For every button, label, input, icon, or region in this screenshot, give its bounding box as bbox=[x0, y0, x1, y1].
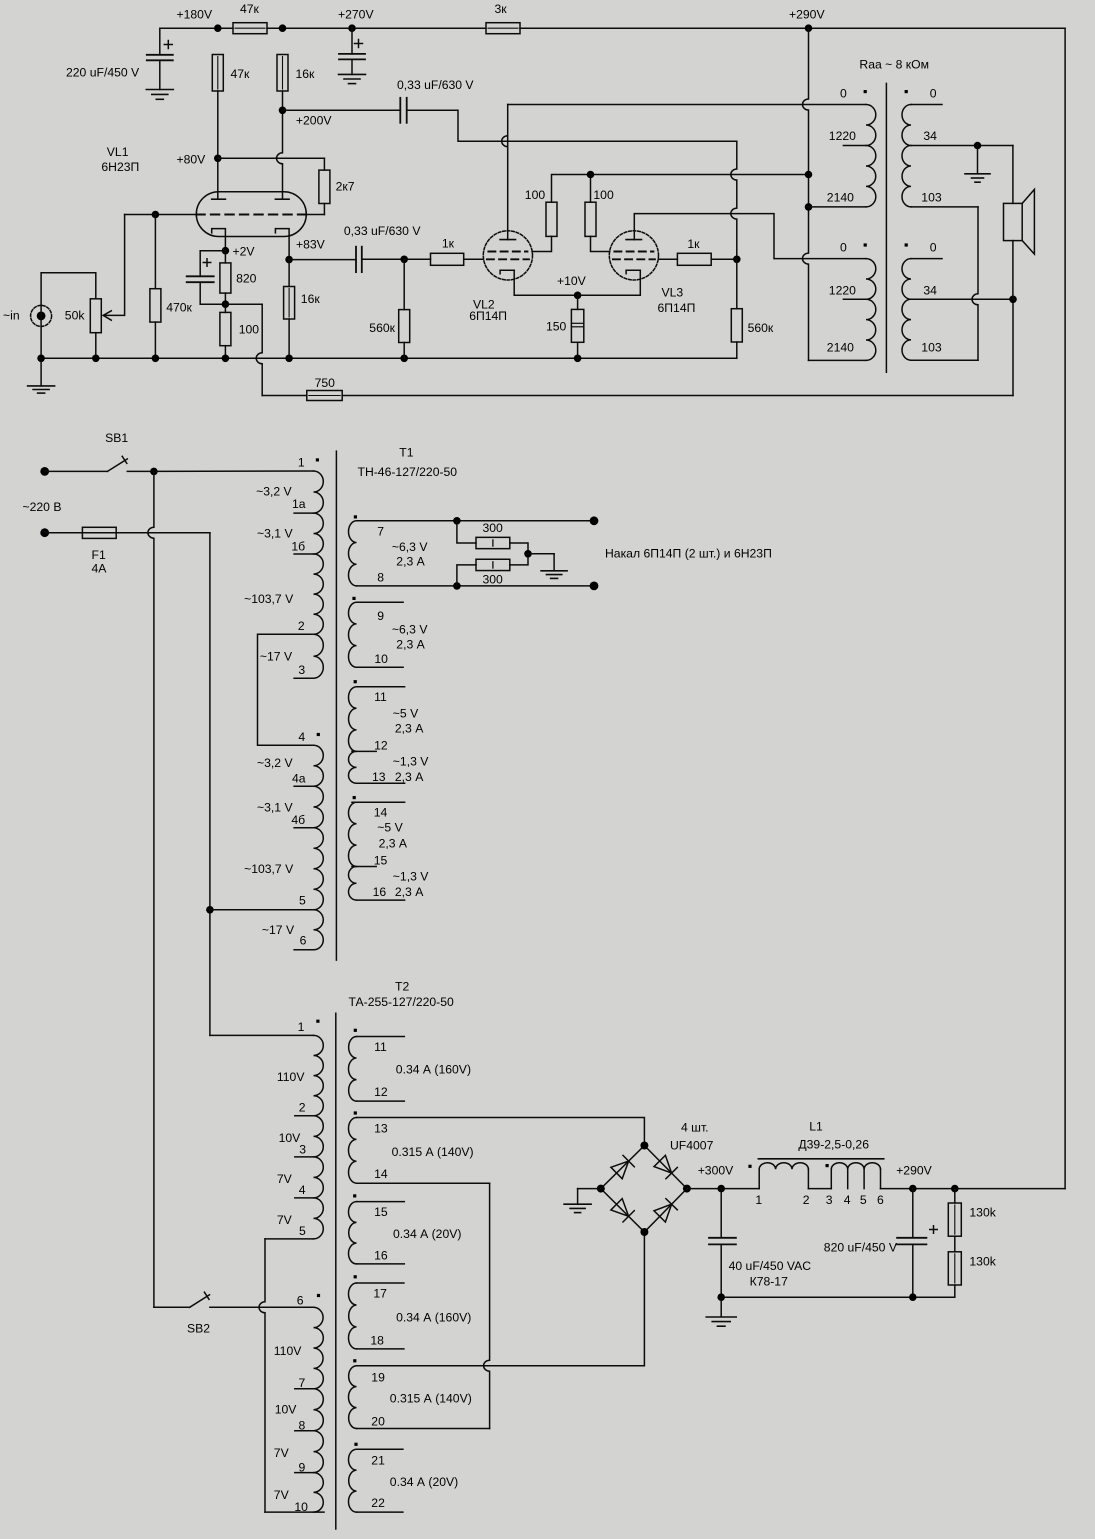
T2 pin 22 bbox=[357, 1496, 403, 1512]
svg-text:2: 2 bbox=[299, 1101, 306, 1115]
T1 pin2-pin4 jumper bbox=[258, 634, 314, 745]
label Nakal bbox=[605, 547, 772, 561]
svg-text:7V: 7V bbox=[274, 1446, 290, 1460]
T2 core bbox=[335, 1013, 337, 1529]
svg-text:5: 5 bbox=[299, 894, 306, 908]
T1 pin 6 bbox=[294, 934, 313, 950]
svg-text:34: 34 bbox=[923, 284, 937, 298]
svg-text:300: 300 bbox=[483, 573, 504, 587]
T1 pin 13 bbox=[357, 770, 405, 784]
T1 pin 10 bbox=[357, 652, 404, 667]
capacitor 40uF/450VAC bbox=[709, 1189, 811, 1298]
label T1 bbox=[358, 446, 458, 480]
T2 label 0.315A 140V upper bbox=[392, 1145, 474, 1159]
label ~220V bbox=[23, 500, 62, 514]
OPT secondary-2 label 0 bbox=[905, 241, 942, 259]
svg-text:4: 4 bbox=[844, 1193, 851, 1207]
T2 label 7V lower-2 bbox=[274, 1488, 290, 1502]
svg-text:0.315 А (140V): 0.315 А (140V) bbox=[390, 1392, 472, 1406]
T2 pin 5 jumper to pin 10 bbox=[259, 1224, 324, 1512]
T1 label ~5V (11-12) bbox=[393, 707, 424, 736]
svg-text:0.315 А (140V): 0.315 А (140V) bbox=[392, 1145, 474, 1159]
svg-text:1а: 1а bbox=[292, 497, 306, 511]
T2 pin 11 bbox=[357, 1037, 405, 1055]
OPT primary-2 winding bbox=[866, 259, 876, 361]
label T2 bbox=[349, 980, 455, 1010]
VL1 left cathode bbox=[212, 229, 226, 251]
svg-text:~17 V: ~17 V bbox=[262, 923, 295, 937]
inductor L1 choke bbox=[748, 1120, 883, 1189]
T1 winding 14-16 bbox=[349, 796, 357, 900]
svg-text:15: 15 bbox=[374, 853, 388, 867]
svg-text:0.34 А (20V): 0.34 А (20V) bbox=[390, 1475, 458, 1489]
svg-text:110V: 110V bbox=[277, 1070, 305, 1084]
svg-text:7: 7 bbox=[299, 1376, 306, 1390]
wire +80V to 2k7 bbox=[218, 157, 325, 159]
svg-text:К78-17: К78-17 bbox=[750, 1275, 788, 1289]
T1 pin 1a bbox=[292, 497, 314, 513]
svg-text:+300V: +300V bbox=[698, 1164, 734, 1178]
T1 pin 11 bbox=[357, 687, 405, 704]
svg-text:6: 6 bbox=[297, 1294, 304, 1308]
potentiometer 50k bbox=[65, 299, 102, 359]
svg-text:10: 10 bbox=[294, 1500, 308, 1514]
svg-text:2140: 2140 bbox=[827, 191, 854, 205]
svg-text:Т2: Т2 bbox=[395, 980, 409, 994]
T2 pin 9 bbox=[295, 1461, 314, 1475]
T1 label ~103,7V lower bbox=[244, 862, 294, 876]
svg-text:~103,7 V: ~103,7 V bbox=[244, 862, 294, 876]
T2 winding 11-12 bbox=[348, 1029, 356, 1101]
svg-text:50k: 50k bbox=[65, 309, 86, 323]
wire 47k to VL1 left anode bbox=[177, 91, 222, 199]
svg-text:7V: 7V bbox=[277, 1213, 293, 1227]
wire SB1 down to SB2 bbox=[148, 471, 154, 1307]
T1 label ~1,3V (15-16) bbox=[393, 870, 429, 900]
OPT primary-2 label 0 bbox=[840, 241, 867, 255]
T2 pin 13 to bridge top bbox=[357, 1118, 645, 1146]
OPT secondary-1 label 0 bbox=[905, 87, 942, 105]
resistor 1k (VL2 grid stopper) bbox=[404, 237, 483, 266]
wire PSU ground rail bbox=[717, 1293, 954, 1301]
T2 pin 20 bbox=[371, 1415, 385, 1429]
svg-text:220 uF/450 V: 220 uF/450 V bbox=[66, 66, 140, 80]
resistor 16k (VL1 right anode load) bbox=[277, 55, 315, 92]
OPT primary-2 pin 2140 bbox=[809, 340, 867, 360]
label VL2 bbox=[469, 298, 507, 324]
svg-text:5: 5 bbox=[860, 1193, 867, 1207]
svg-text:9: 9 bbox=[377, 609, 384, 623]
resistor 560k (VL3 grid leak) bbox=[731, 259, 774, 358]
T2 pin 12 bbox=[357, 1085, 405, 1101]
resistor 2k7 (VL1 right grid) bbox=[319, 158, 355, 214]
svg-text:150: 150 bbox=[546, 320, 567, 334]
svg-text:Д39-2,5-0,26: Д39-2,5-0,26 bbox=[798, 1138, 869, 1152]
ground (speaker common) bbox=[965, 146, 990, 183]
svg-text:560к: 560к bbox=[748, 321, 774, 335]
wire SB1 to T1 pin 1 bbox=[154, 470, 314, 472]
OPT primary-2 tap 1220 bbox=[829, 284, 866, 300]
T1 winding 11-13 bbox=[348, 680, 356, 783]
OPT secondary-2 winding bbox=[902, 259, 911, 361]
svg-text:3: 3 bbox=[298, 663, 305, 677]
resistor 820 (cathode bias) bbox=[220, 251, 257, 305]
T2 pin 19 to bridge bottom bbox=[357, 1232, 645, 1385]
node +300V bbox=[687, 1164, 759, 1193]
resistor 100 (VL3 screen) bbox=[585, 188, 614, 236]
T2 winding 21-22 bbox=[348, 1443, 357, 1512]
svg-text:12: 12 bbox=[374, 1085, 388, 1099]
svg-text:F1: F1 bbox=[92, 548, 106, 562]
T2 winding 13-14 bbox=[348, 1111, 356, 1183]
svg-text:130k: 130k bbox=[969, 1206, 996, 1220]
T1 label ~1,3V (12-13) bbox=[393, 755, 429, 785]
svg-text:2140: 2140 bbox=[827, 340, 854, 354]
svg-text:4: 4 bbox=[299, 1183, 306, 1197]
svg-text:470к: 470к bbox=[166, 301, 192, 315]
svg-text:22: 22 bbox=[371, 1496, 385, 1510]
OPT primary-1 label 0 bbox=[840, 87, 867, 101]
node +270V bbox=[338, 8, 374, 33]
OPT primary-1 tap 1220 bbox=[829, 129, 866, 146]
svg-text:20: 20 bbox=[371, 1415, 385, 1429]
node 820/100 junction bbox=[222, 300, 230, 308]
T1 core bbox=[335, 451, 337, 960]
svg-text:1: 1 bbox=[298, 1020, 305, 1034]
svg-text:+270V: +270V bbox=[338, 8, 374, 22]
resistor 100 (VL2 screen) bbox=[525, 188, 557, 236]
node VL2 grid bbox=[362, 255, 408, 263]
svg-text:5: 5 bbox=[299, 1224, 306, 1238]
svg-text:+180V: +180V bbox=[177, 8, 213, 22]
label Raa bbox=[859, 58, 929, 72]
resistor 47k (rail filter) bbox=[233, 2, 267, 34]
svg-text:~3,1 V: ~3,1 V bbox=[257, 800, 293, 814]
svg-text:7V: 7V bbox=[274, 1488, 290, 1502]
svg-text:Т1: Т1 bbox=[399, 446, 413, 460]
T2 pin 4 bbox=[295, 1183, 314, 1198]
ground (220uF cap) bbox=[146, 90, 173, 100]
T2 label 110V lower bbox=[274, 1344, 302, 1358]
svg-text:6Н23П: 6Н23П bbox=[101, 160, 139, 174]
switch SB2 bbox=[154, 1292, 210, 1335]
speaker bbox=[1004, 146, 1035, 300]
T1 pin 1 bbox=[298, 456, 319, 470]
resistor 130k lower (bleeder) bbox=[948, 1236, 996, 1297]
T1 pin 14 bbox=[352, 802, 405, 819]
svg-text:820: 820 bbox=[236, 272, 257, 286]
svg-text:560к: 560к bbox=[369, 321, 395, 335]
T1 pin 7 line bbox=[357, 516, 599, 538]
svg-text:100: 100 bbox=[239, 323, 260, 337]
svg-text:+290V: +290V bbox=[896, 1164, 932, 1178]
svg-text:SB1: SB1 bbox=[105, 431, 128, 445]
svg-text:6П14П: 6П14П bbox=[658, 301, 696, 315]
svg-text:~17 V: ~17 V bbox=[260, 650, 293, 664]
node SB1 output bbox=[150, 468, 158, 476]
svg-text:~1,3 V: ~1,3 V bbox=[393, 870, 429, 884]
T1 label ~6,3V (9-10) bbox=[392, 623, 428, 652]
resistor 470k (grid leak) bbox=[150, 215, 193, 359]
T1 label ~5V (14-15) bbox=[377, 821, 408, 851]
T2 pin 15 bbox=[357, 1202, 405, 1219]
T2 pin 10 bbox=[294, 1500, 308, 1514]
T1 pin 5 bbox=[210, 894, 314, 910]
T2 primary winding lower bbox=[314, 1307, 324, 1512]
T1 pin 1b bbox=[291, 540, 313, 555]
node +2V bbox=[222, 245, 256, 259]
svg-text:0,33 uF/630 V: 0,33 uF/630 V bbox=[344, 224, 421, 238]
svg-text:0.34 А (160V): 0.34 А (160V) bbox=[396, 1063, 471, 1077]
svg-text:+83V: +83V bbox=[296, 238, 326, 252]
resistor 300 (heater balance upper) bbox=[457, 521, 528, 554]
T1 pin 4 bbox=[298, 730, 320, 744]
T1 winding 9-10 bbox=[348, 597, 356, 668]
ground (input rail) bbox=[28, 358, 55, 393]
fuse F1 4A bbox=[40, 527, 210, 575]
T2 pin 8 bbox=[295, 1419, 314, 1433]
resistor 750 (feedback) bbox=[307, 376, 342, 401]
svg-text:~3,2 V: ~3,2 V bbox=[256, 485, 292, 499]
svg-text:ТН-46-127/220-50: ТН-46-127/220-50 bbox=[358, 465, 458, 479]
T1 label ~3,2V lower bbox=[257, 756, 293, 770]
svg-text:19: 19 bbox=[371, 1371, 385, 1385]
OPT primary-1 pin 2140 bbox=[809, 191, 867, 207]
T1 primary winding upper bbox=[314, 471, 324, 678]
T2 label 0.34A 20V lower bbox=[390, 1475, 458, 1489]
svg-text:8: 8 bbox=[377, 571, 384, 585]
ground (+270V cap) bbox=[339, 74, 366, 83]
svg-text:2к7: 2к7 bbox=[336, 180, 355, 194]
OPT secondary-1 winding bbox=[902, 105, 911, 207]
wire signal ground rail bbox=[37, 355, 737, 363]
pentode VL3 bbox=[609, 231, 658, 280]
svg-text:2,3 А: 2,3 А bbox=[379, 836, 408, 850]
wire VL3 cathode bbox=[578, 270, 641, 295]
svg-text:+80V: +80V bbox=[177, 153, 207, 167]
capacitor 0,33uF/630V (upper coupling) bbox=[283, 78, 475, 123]
svg-text:34: 34 bbox=[923, 129, 937, 143]
svg-text:100: 100 bbox=[593, 188, 614, 202]
node +290V (PSU) bbox=[881, 1164, 959, 1193]
T2 label 10V upper bbox=[279, 1131, 302, 1145]
T1 pin 9 bbox=[357, 602, 404, 623]
svg-text:1к: 1к bbox=[442, 237, 455, 251]
wire jack to ground rail bbox=[40, 305, 42, 358]
svg-text:10V: 10V bbox=[275, 1403, 298, 1417]
svg-text:13: 13 bbox=[372, 770, 386, 784]
svg-text:103: 103 bbox=[921, 191, 942, 205]
capacitor 820uF/450V bbox=[824, 1189, 937, 1298]
pot wiper arrow bbox=[103, 215, 124, 321]
T2 pin 7 bbox=[295, 1376, 314, 1390]
svg-text:300: 300 bbox=[483, 521, 504, 535]
svg-text:16к: 16к bbox=[301, 292, 321, 306]
svg-text:1б: 1б bbox=[291, 540, 305, 554]
svg-text:2,3 А: 2,3 А bbox=[395, 885, 424, 899]
T1 pin 3 bbox=[294, 663, 313, 678]
node VL3 grid bbox=[733, 255, 741, 263]
wire feedback to cathode node bbox=[225, 304, 306, 395]
svg-text:+290V: +290V bbox=[789, 8, 825, 22]
svg-text:10: 10 bbox=[374, 652, 388, 666]
T2 pin 6 bbox=[297, 1294, 320, 1308]
resistor 47k (VL1 left anode load) bbox=[212, 55, 250, 92]
svg-text:47к: 47к bbox=[240, 2, 260, 16]
svg-text:3: 3 bbox=[826, 1193, 833, 1207]
resistor 130k upper (bleeder) bbox=[948, 1189, 996, 1237]
svg-text:+10V: +10V bbox=[557, 274, 587, 288]
T2 primary winding upper bbox=[314, 1035, 324, 1239]
node +290V bbox=[789, 8, 825, 33]
svg-text:47к: 47к bbox=[231, 67, 251, 81]
svg-text:2,3 А: 2,3 А bbox=[395, 770, 424, 784]
svg-text:110V: 110V bbox=[274, 1344, 302, 1358]
OPT secondary-1 tap 34 bbox=[911, 129, 1013, 149]
svg-text:SB2: SB2 bbox=[187, 1322, 210, 1336]
T1 label ~3,2V upper bbox=[256, 485, 292, 499]
OPT secondary-2 tap 34 bbox=[911, 284, 1017, 304]
T1 pin 4b bbox=[291, 813, 313, 828]
svg-text:~1,3 V: ~1,3 V bbox=[393, 755, 429, 769]
resistor 3k (rail filter) bbox=[486, 2, 520, 34]
svg-text:1: 1 bbox=[298, 456, 305, 470]
svg-text:14: 14 bbox=[374, 806, 388, 820]
VL1 right cathode bbox=[275, 229, 289, 260]
T1 pin 4a bbox=[292, 772, 314, 787]
svg-text:6: 6 bbox=[877, 1193, 884, 1207]
capacitor 0,33uF/630V (lower coupling) bbox=[289, 224, 421, 272]
svg-text:0.34 А (20V): 0.34 А (20V) bbox=[393, 1227, 461, 1241]
triode VL1 envelope bbox=[196, 192, 306, 237]
node +83V bbox=[285, 238, 325, 264]
capacitor 820 bypass bbox=[187, 251, 226, 305]
svg-text:4 шт.: 4 шт. bbox=[681, 1121, 709, 1135]
svg-text:VL3: VL3 bbox=[662, 286, 684, 300]
svg-text:1220: 1220 bbox=[829, 284, 856, 298]
wire VL2 cathode bbox=[514, 270, 577, 295]
svg-text:UF4007: UF4007 bbox=[670, 1139, 714, 1153]
T1 label ~17V upper bbox=[260, 650, 293, 664]
resistor 1k (VL3 grid stopper) bbox=[659, 237, 737, 265]
T1 label ~103,7V upper bbox=[244, 592, 294, 606]
svg-text:7V: 7V bbox=[277, 1172, 293, 1186]
resistor 300 (heater balance lower) bbox=[457, 554, 528, 587]
T2 winding 15-16 bbox=[348, 1194, 356, 1264]
wire VL3 screen to 100 bbox=[591, 236, 610, 251]
T2 winding 19-20 bbox=[348, 1359, 356, 1428]
T1 label ~17V lower bbox=[262, 923, 295, 937]
T1 pin 8 line bbox=[357, 571, 599, 591]
ground (bridge) bbox=[564, 1189, 601, 1213]
wire coupling cap to VL3 grid node bbox=[407, 110, 737, 259]
svg-text:820 uF/450 V: 820 uF/450 V bbox=[824, 1241, 898, 1255]
svg-text:6П14П: 6П14П bbox=[469, 309, 507, 323]
T2 pin 2 bbox=[295, 1101, 314, 1116]
OPT secondary-1 pin 103 bbox=[911, 191, 978, 361]
svg-text:ТА-255-127/220-50: ТА-255-127/220-50 bbox=[349, 995, 455, 1009]
output transformer core bbox=[885, 83, 887, 372]
svg-text:Накал 6П14П (2 шт.) и 6Н23П: Накал 6П14П (2 шт.) и 6Н23П bbox=[605, 547, 772, 561]
svg-text:2,3 А: 2,3 А bbox=[395, 722, 424, 736]
svg-text:17: 17 bbox=[373, 1287, 387, 1301]
capacitor +270V filter bbox=[339, 28, 365, 74]
svg-text:18: 18 bbox=[370, 1334, 384, 1348]
svg-text:+2V: +2V bbox=[233, 245, 256, 259]
T1 primary winding lower bbox=[314, 745, 324, 950]
T1 label ~6,3V (7-8) bbox=[392, 540, 428, 569]
node +10V bbox=[557, 274, 587, 299]
T2 label 7V upper-1 bbox=[277, 1172, 293, 1186]
svg-text:Raa ~ 8 кОм: Raa ~ 8 кОм bbox=[859, 58, 929, 72]
VL1 grid line (dashed) bbox=[125, 211, 325, 219]
T2 label 0.34A 20V upper bbox=[393, 1227, 461, 1241]
svg-text:2,3 А: 2,3 А bbox=[396, 555, 425, 569]
T2 pin 18 bbox=[357, 1334, 404, 1349]
diode D4 (bottom-right) bbox=[654, 1199, 677, 1222]
svg-text:~103,7 V: ~103,7 V bbox=[244, 592, 294, 606]
svg-text:0,33 uF/630 V: 0,33 uF/630 V bbox=[397, 78, 474, 92]
svg-text:11: 11 bbox=[374, 1040, 387, 1054]
T2 label 0.315A 140V lower bbox=[390, 1392, 472, 1406]
svg-text:130k: 130k bbox=[969, 1255, 996, 1269]
svg-text:10V: 10V bbox=[279, 1131, 302, 1145]
T1 winding 7-8 bbox=[348, 515, 357, 586]
svg-text:4: 4 bbox=[298, 730, 305, 744]
wire neutral down to T1 pin5 / T2 pin1 bbox=[206, 533, 214, 1036]
T2 label 10V lower bbox=[275, 1403, 298, 1417]
ground (PSU) bbox=[706, 1297, 736, 1326]
diode D1 (left-top) bbox=[611, 1155, 634, 1178]
T2 winding 17-18 bbox=[348, 1275, 356, 1349]
svg-text:1220: 1220 bbox=[829, 129, 856, 143]
T1 label ~3,1V upper bbox=[257, 527, 293, 541]
wire neutral to T2 pin 1 bbox=[210, 1034, 314, 1036]
OPT primary-1 winding bbox=[866, 105, 876, 207]
T1 pin 15 bbox=[352, 853, 387, 867]
svg-text:0: 0 bbox=[840, 87, 847, 101]
label 4sht UF4007 bbox=[670, 1121, 714, 1153]
svg-text:6: 6 bbox=[300, 934, 307, 948]
wire SB2 to T2 pin 6 bbox=[210, 1306, 314, 1308]
svg-text:1: 1 bbox=[755, 1193, 762, 1207]
T2 pin 14 to pin 20 bbox=[357, 1167, 490, 1429]
svg-text:9: 9 bbox=[299, 1461, 306, 1475]
svg-text:L1: L1 bbox=[809, 1120, 823, 1134]
VL1 right anode plate bbox=[275, 198, 289, 200]
T1 pin 16 bbox=[357, 885, 405, 900]
svg-text:~5 V: ~5 V bbox=[393, 707, 419, 721]
wire +180V/+270V/+290V top supply rail bbox=[160, 28, 1065, 54]
pentode VL2 bbox=[483, 231, 532, 280]
svg-text:21: 21 bbox=[371, 1454, 385, 1468]
T1 label ~3,1V lower bbox=[257, 800, 293, 814]
T2 label 110V upper bbox=[277, 1070, 305, 1084]
svg-text:0.34 А (160V): 0.34 А (160V) bbox=[396, 1311, 471, 1325]
L1 pin labels bbox=[755, 1193, 884, 1207]
T2 pin 17 bbox=[357, 1283, 404, 1301]
svg-text:2: 2 bbox=[298, 619, 305, 633]
svg-text:~6,3 V: ~6,3 V bbox=[392, 623, 428, 637]
svg-text:16к: 16к bbox=[296, 67, 316, 81]
svg-text:~220 В: ~220 В bbox=[23, 500, 62, 514]
svg-text:~5 V: ~5 V bbox=[377, 821, 403, 835]
T2 label 7V lower-1 bbox=[274, 1446, 290, 1460]
svg-text:3: 3 bbox=[299, 1142, 306, 1156]
svg-text:~6,3 V: ~6,3 V bbox=[392, 540, 428, 554]
wire VL2 anode to output transformer primary-1 pin 0 bbox=[502, 105, 866, 240]
svg-text:14: 14 bbox=[374, 1167, 388, 1181]
